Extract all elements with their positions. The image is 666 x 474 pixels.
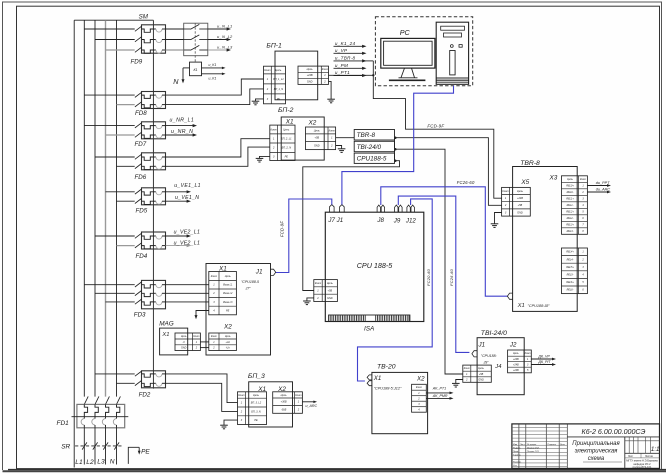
- svg-text:Конт: Конт: [315, 282, 321, 285]
- svg-text:PE: PE: [226, 309, 230, 312]
- svg-text:u_K1: u_K1: [209, 63, 217, 67]
- svg-text:Конт: Конт: [580, 178, 586, 181]
- svg-text:PE: PE: [277, 98, 281, 101]
- svg-text:+24В: +24В: [517, 197, 523, 200]
- svg-text:БП_1_N: БП_1_N: [274, 88, 284, 91]
- svg-text:электрическая: электрическая: [575, 449, 619, 455]
- svg-text:TBI-24/0: TBI-24/0: [357, 144, 382, 151]
- svg-text:№ докум.: № докум.: [527, 443, 537, 446]
- svg-text:БП_3_L2: БП_3_L2: [251, 402, 262, 405]
- svg-text:FD9: FD9: [131, 59, 143, 66]
- svg-text:X2: X2: [308, 120, 317, 127]
- svg-text:FD8: FD8: [135, 110, 147, 117]
- svg-text:GND: GND: [307, 80, 313, 83]
- svg-text:схема: схема: [588, 456, 605, 462]
- svg-text:AK_PT1: AK_PT1: [432, 387, 446, 391]
- svg-text:J9: J9: [393, 218, 401, 225]
- svg-text:TBI-24/0: TBI-24/0: [481, 330, 507, 337]
- svg-text:REL1+: REL1+: [566, 197, 574, 200]
- svg-text:FD7: FD7: [135, 141, 147, 148]
- svg-text:"CPU188-5:J12": "CPU188-5:J12": [374, 387, 402, 391]
- svg-text:+24В: +24В: [513, 363, 519, 366]
- svg-text:X3: X3: [549, 175, 558, 182]
- svg-text:FC26-60: FC26-60: [449, 268, 454, 286]
- svg-text:Конт: Конт: [271, 128, 277, 131]
- svg-text:J12: J12: [405, 218, 417, 225]
- svg-text:-Uл: -Uл: [226, 347, 231, 350]
- svg-text:+5В: +5В: [518, 204, 523, 207]
- svg-text:X2: X2: [416, 376, 425, 383]
- svg-text:Конт: Конт: [295, 394, 301, 397]
- svg-text:К6-2 6.00.00.000СЭ: К6-2 6.00.00.000СЭ: [582, 428, 646, 436]
- svg-text:TBR-8: TBR-8: [520, 160, 540, 167]
- svg-text:FD2: FD2: [139, 392, 151, 399]
- svg-text:FD3: FD3: [134, 312, 146, 319]
- svg-text:PC: PC: [400, 28, 411, 37]
- svg-text:FC20-60: FC20-60: [426, 268, 431, 286]
- svg-text:J8: J8: [376, 217, 384, 224]
- svg-text:Цепь: Цепь: [283, 128, 290, 131]
- svg-text:ДК_VP: ДК_VP: [537, 354, 550, 358]
- svg-text:Принципиальная: Принципиальная: [572, 441, 620, 447]
- svg-text:u_K1: u_K1: [209, 77, 217, 81]
- svg-text:Цепь: Цепь: [567, 178, 573, 181]
- svg-text:CPU 188-5: CPU 188-5: [357, 261, 394, 270]
- svg-text:J4: J4: [494, 364, 501, 370]
- svg-text:SM: SM: [139, 14, 149, 21]
- svg-text:L1: L1: [75, 459, 83, 466]
- svg-text:Конт: Конт: [211, 275, 217, 278]
- svg-text:X1: X1: [373, 375, 382, 382]
- svg-text:J1: J1: [478, 342, 486, 349]
- svg-text:+24В: +24В: [307, 74, 313, 77]
- svg-text:X1: X1: [517, 303, 525, 309]
- svg-text:PE: PE: [285, 155, 289, 158]
- svg-text:Цепь: Цепь: [275, 69, 282, 72]
- svg-text:"CPU188-5: "CPU188-5: [241, 280, 259, 284]
- svg-text:Конт: Конт: [264, 69, 270, 72]
- svg-text:u_K1_24: u_K1_24: [335, 41, 356, 46]
- svg-text:TBR-8: TBR-8: [357, 132, 376, 139]
- svg-text:Конт: Конт: [193, 335, 199, 338]
- svg-text:FD5: FD5: [136, 208, 148, 215]
- svg-text:Фаза L2: Фаза L2: [223, 292, 233, 295]
- svg-text:Цепь: Цепь: [314, 129, 321, 132]
- svg-text:БП-2: БП-2: [278, 107, 294, 114]
- svg-text:J7 J1: J7 J1: [327, 217, 343, 224]
- svg-text:REL6-: REL6-: [567, 289, 574, 292]
- svg-text:J9": J9": [483, 361, 490, 365]
- svg-text:L3: L3: [97, 458, 105, 465]
- svg-text:"CPU188:: "CPU188:: [481, 354, 497, 358]
- svg-text:Цепь: Цепь: [513, 352, 519, 355]
- svg-text:FD4: FD4: [136, 253, 148, 260]
- svg-text:N: N: [110, 458, 115, 465]
- svg-text:X2: X2: [223, 323, 232, 330]
- svg-text:БП_1_L1: БП_1_L1: [273, 78, 284, 81]
- svg-text:Цепь: Цепь: [517, 190, 524, 193]
- svg-text:-36В: -36В: [281, 408, 287, 411]
- svg-text:REL0-: REL0-: [567, 191, 574, 194]
- svg-text:Цепь: Цепь: [327, 282, 334, 285]
- svg-text:MAG: MAG: [159, 320, 174, 327]
- svg-text:SR: SR: [61, 443, 70, 450]
- svg-text:Подпись: Подпись: [548, 444, 558, 446]
- svg-text:+5В: +5В: [479, 373, 484, 376]
- svg-text:u_VE1_N: u_VE1_N: [175, 195, 199, 201]
- svg-text:u_PM: u_PM: [335, 63, 348, 68]
- svg-text:CPU188-5: CPU188-5: [357, 156, 387, 163]
- svg-text:L2: L2: [86, 459, 94, 466]
- svg-text:БП_3_N: БП_3_N: [251, 410, 261, 413]
- svg-text:Цепь: Цепь: [225, 275, 232, 278]
- svg-text:Цепь: Цепь: [307, 68, 314, 71]
- svg-text:1:1: 1:1: [651, 446, 660, 453]
- svg-text:+36В: +36В: [281, 401, 287, 404]
- svg-text:REL3-: REL3-: [567, 230, 574, 233]
- svg-text:Конт: Конт: [464, 367, 470, 370]
- svg-text:u_NR_L1: u_NR_L1: [170, 118, 195, 124]
- svg-text:u_VP: u_VP: [335, 48, 348, 53]
- svg-text:REL2-: REL2-: [567, 217, 574, 220]
- svg-text:u_PT1: u_PT1: [335, 70, 350, 75]
- svg-text:группа ИУ2-101: группа ИУ2-101: [633, 465, 652, 469]
- svg-text:GND: GND: [517, 211, 523, 214]
- svg-text:Конт: Конт: [416, 386, 422, 389]
- svg-text:Конт: Конт: [525, 352, 531, 355]
- svg-text:REL4-: REL4-: [567, 258, 574, 261]
- svg-text:X1: X1: [285, 119, 294, 126]
- svg-text:БП_2_L1: БП_2_L1: [281, 137, 292, 140]
- svg-text:du_ARC: du_ARC: [596, 188, 611, 192]
- svg-text:Фаза L3: Фаза L3: [223, 301, 233, 304]
- svg-text:-V: -V: [183, 341, 186, 344]
- svg-text:X5: X5: [520, 179, 529, 186]
- svg-text:Пров.: Пров.: [513, 451, 519, 453]
- svg-text:ISA: ISA: [364, 326, 374, 333]
- svg-text:Цепь: Цепь: [281, 394, 288, 397]
- svg-text:Листов: Листов: [645, 455, 653, 458]
- svg-text:FD6: FD6: [135, 174, 147, 181]
- svg-text:GND: GND: [181, 347, 187, 350]
- svg-text:REL6+: REL6+: [566, 281, 574, 284]
- svg-text:AK_PMR: AK_PMR: [432, 394, 448, 398]
- svg-text:+Uл: +Uл: [225, 341, 230, 344]
- svg-text:Т.контр.: Т.контр.: [513, 454, 521, 456]
- svg-text:Конт: Конт: [322, 68, 328, 71]
- svg-text:БП-1: БП-1: [266, 43, 282, 50]
- svg-text:X1: X1: [161, 332, 169, 338]
- svg-text:GND: GND: [478, 378, 484, 381]
- svg-text:u_VE2_L1: u_VE2_L1: [174, 229, 201, 235]
- svg-text:REL5+: REL5+: [566, 266, 574, 269]
- svg-text:Конт: Конт: [238, 394, 244, 397]
- svg-text:Лист: Лист: [628, 455, 634, 458]
- svg-text:GND: GND: [327, 297, 333, 300]
- svg-text:Иванов И.И.: Иванов И.И.: [527, 447, 540, 449]
- svg-text:REL0+: REL0+: [566, 184, 574, 187]
- svg-text:REL1-: REL1-: [567, 204, 574, 207]
- svg-text:J1: J1: [255, 269, 263, 276]
- svg-text:u_N_L2: u_N_L2: [217, 34, 233, 39]
- svg-text:u_NR_N: u_NR_N: [171, 129, 193, 135]
- svg-text:FCD-9F: FCD-9F: [280, 221, 285, 237]
- svg-text:ДК_PIT: ДК_PIT: [537, 360, 551, 364]
- svg-text:Н.контр.: Н.контр.: [513, 461, 522, 463]
- svg-text:+24В: +24В: [513, 358, 519, 361]
- svg-text:+5В: +5В: [314, 137, 319, 140]
- svg-text:REL2+: REL2+: [566, 210, 574, 213]
- svg-text:Цепь: Цепь: [181, 335, 187, 338]
- svg-text:Разраб.: Разраб.: [513, 447, 521, 449]
- svg-text:ТВ-20: ТВ-20: [377, 364, 396, 371]
- svg-text:Петров П.П.: Петров П.П.: [527, 451, 540, 453]
- svg-text:"CPU188:J8": "CPU188:J8": [528, 304, 551, 308]
- svg-text:БП_3: БП_3: [248, 373, 265, 380]
- svg-text:Фаза L1: Фаза L1: [223, 284, 233, 287]
- svg-text:N: N: [173, 77, 179, 86]
- svg-text:u_TBR-8: u_TBR-8: [335, 55, 356, 60]
- svg-text:К1: К1: [193, 68, 197, 72]
- svg-text:u_N_L3: u_N_L3: [217, 44, 233, 49]
- svg-text:FD1: FD1: [57, 420, 70, 427]
- svg-text:u_VE1_L1: u_VE1_L1: [174, 183, 201, 189]
- svg-text:FCD-9F: FCD-9F: [427, 123, 444, 128]
- svg-text:REL5-: REL5-: [567, 273, 574, 276]
- svg-text:Цепь: Цепь: [478, 367, 484, 370]
- svg-text:БП_2_N: БП_2_N: [282, 147, 292, 150]
- svg-text:u_VE2_L1: u_VE2_L1: [174, 241, 201, 247]
- svg-text:Утв.: Утв.: [513, 465, 518, 467]
- svg-text:Цепь: Цепь: [225, 335, 231, 338]
- svg-text:u_ARC: u_ARC: [306, 404, 318, 408]
- svg-text:Лист: Лист: [520, 444, 525, 446]
- svg-text:PE: PE: [141, 448, 150, 455]
- svg-text:J2: J2: [509, 342, 517, 349]
- svg-text:du_PPT: du_PPT: [596, 181, 610, 185]
- svg-text:FC26-60: FC26-60: [457, 180, 475, 185]
- svg-text:Изм: Изм: [513, 444, 518, 446]
- svg-text:Конт: Конт: [502, 190, 508, 193]
- svg-text:REL3+: REL3+: [566, 223, 574, 226]
- svg-text:Цепь: Цепь: [253, 394, 260, 397]
- svg-text:J7": J7": [245, 286, 252, 290]
- svg-text:Конт: Конт: [329, 129, 335, 132]
- svg-text:Конт: Конт: [211, 335, 217, 338]
- svg-text:+24В: +24В: [513, 369, 519, 372]
- svg-text:Дата: Дата: [560, 444, 566, 446]
- svg-text:+5В: +5В: [328, 289, 333, 292]
- svg-text:GND: GND: [314, 144, 320, 147]
- svg-text:REL4+: REL4+: [566, 251, 574, 254]
- svg-text:u_N_L1: u_N_L1: [217, 23, 233, 28]
- svg-text:PE: PE: [254, 419, 258, 422]
